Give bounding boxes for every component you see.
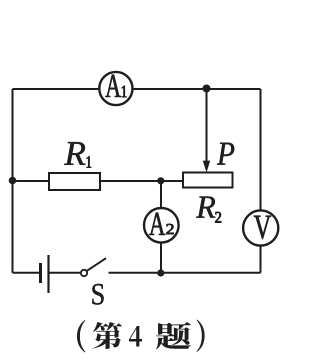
caption close paren: [197, 319, 205, 352]
label P wiper: [217, 143, 234, 165]
wire right vertical: [260, 89, 262, 273]
wire middle horizontal to R2: [13, 180, 184, 182]
battery negative plate (short): [39, 263, 42, 283]
resistor R1 body: [49, 173, 100, 190]
switch S pivot circle: [81, 270, 87, 276]
voltmeter V circle: [243, 210, 278, 245]
ammeter A1 letter A: [105, 75, 120, 97]
switch S lever: [87, 258, 106, 271]
ammeter A1 subscript 1: [122, 86, 126, 97]
wire top horizontal: [13, 88, 261, 90]
node junction left (mid wire): [9, 177, 17, 185]
wire bottom left segment: [13, 272, 41, 274]
caption open paren: [77, 320, 85, 353]
wire A2 branch vertical: [160, 181, 162, 273]
caption digit 4: [129, 326, 142, 346]
label R1 subscript 1: [87, 156, 91, 167]
ammeter A2 circle: [144, 208, 179, 243]
label R1 letter R: [64, 142, 85, 165]
label R2 letter R: [196, 197, 215, 218]
wire switch to right corner: [109, 272, 261, 274]
ammeter A1 circle: [99, 72, 132, 105]
label S switch: [92, 284, 103, 305]
ammeter A2 subscript 2: [166, 224, 173, 234]
wiper arrowhead: [203, 161, 210, 173]
node junction mid (R1/R2/A2): [157, 177, 164, 184]
wire potentiometer wiper lead: [206, 89, 208, 164]
wire battery to switch: [49, 272, 81, 274]
label R2 subscript 2: [215, 212, 221, 223]
voltmeter V letter: [254, 216, 271, 239]
node junction top (wiper tap): [203, 85, 211, 93]
resistor R2 body (rheostat): [183, 173, 233, 188]
caption character ti: [156, 322, 191, 349]
ammeter A2 letter A: [149, 213, 165, 235]
node junction bottom (A2 to bottom wire): [157, 269, 164, 276]
caption character di: [93, 322, 122, 349]
wire left vertical: [12, 89, 14, 273]
battery positive plate (long): [47, 255, 49, 293]
